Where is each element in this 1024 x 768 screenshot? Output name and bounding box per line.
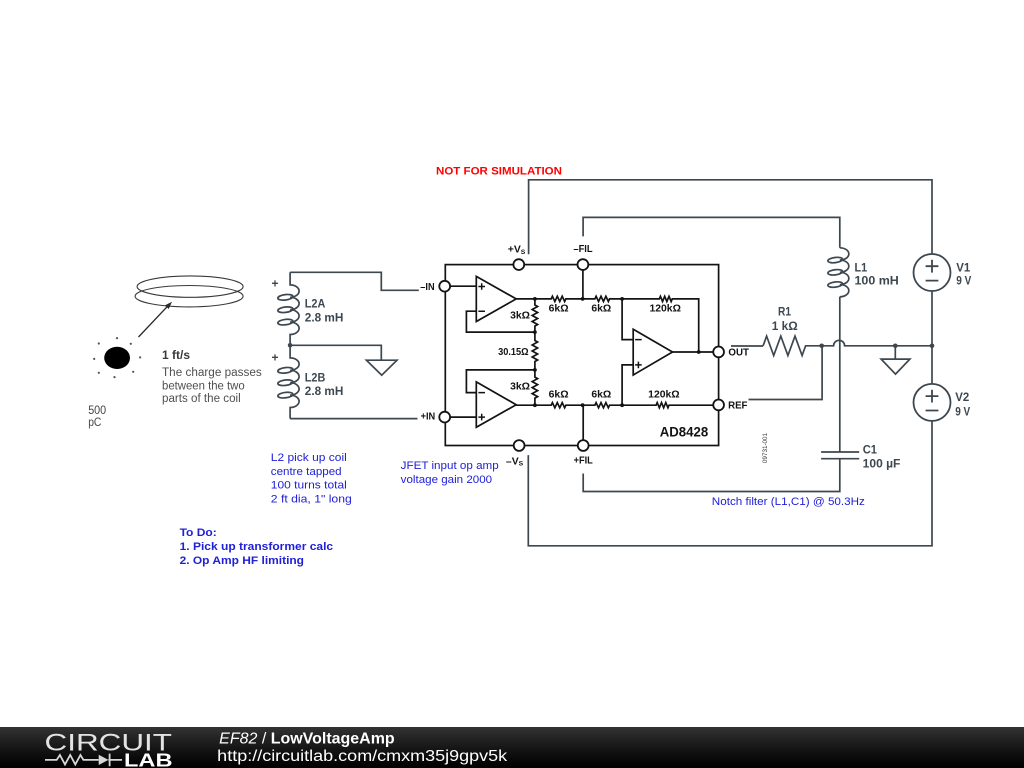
svg-text:120kΩ: 120kΩ [648,390,679,401]
node ground junction [893,344,898,349]
svg-text:REF: REF [728,400,747,411]
svg-text:C1: C1 [863,442,878,456]
wire +FIL stub [582,405,584,440]
svg-text:OUT: OUT [728,347,749,358]
wire A1 output row with resistors [516,296,699,352]
junction dots inside box [533,297,701,407]
logo resistor-diode glyph [45,754,122,767]
terminal -IN [439,281,450,292]
svg-text:–IN: –IN [420,282,434,293]
wire -FIL stub [582,270,584,299]
charge ball [104,347,130,369]
svg-text:centre tapped: centre tapped [271,466,342,478]
svg-text:6kΩ: 6kΩ [591,390,611,401]
svg-text:3kΩ: 3kΩ [510,381,530,392]
svg-text:6kΩ: 6kΩ [549,303,569,314]
resistor 3k (bottom) vertical [532,370,537,405]
svg-text:100 µF: 100 µF [863,456,901,470]
capacitor C1 [821,452,859,459]
wire A1 feedback [466,311,535,332]
terminal REF [713,400,724,411]
terminal +Vs [513,259,524,270]
svg-text:JFET input op amp: JFET input op amp [401,460,499,472]
svg-text:LAB: LAB [124,750,173,768]
svg-text:2.8 mH: 2.8 mH [305,310,344,324]
svg-text:2 ft dia, 1" long: 2 ft dia, 1" long [271,493,352,505]
svg-text:1. Pick up transformer calc: 1. Pick up transformer calc [180,541,334,553]
svg-text:9 V: 9 V [955,404,970,418]
svg-text:Notch filter (L1,C1) @ 50.3Hz: Notch filter (L1,C1) @ 50.3Hz [712,496,865,508]
svg-text:1 ft/s: 1 ft/s [162,348,190,362]
svg-text:L2B: L2B [305,370,326,384]
svg-text:+IN: +IN [421,411,436,422]
svg-text:09731-001: 09731-001 [762,432,769,463]
wire center tap to ground [290,345,381,360]
inductor L1 [828,248,849,297]
svg-text:120kΩ: 120kΩ [649,303,680,314]
resistor 30.15 vertical [532,332,537,370]
svg-text:AD8428: AD8428 [660,424,709,439]
terminal -FIL [578,259,589,270]
inductor L2A [278,272,300,345]
op-amp U1 AD8428 outline box [445,265,718,446]
resistor 3k (top) vertical [532,299,537,332]
svg-text:V1: V1 [956,261,970,275]
svg-text:L1: L1 [855,261,868,275]
voltage source V2 [914,346,951,421]
terminal OUT [713,347,724,358]
wire L2A top to -IN [290,272,419,290]
wire to A3 inverting input [622,299,633,340]
coil drawing ellipse bottom [135,286,243,307]
sparkle dots around charge [93,337,141,378]
svg-text:6kΩ: 6kΩ [549,390,569,401]
svg-text:–FIL: –FIL [573,244,593,255]
wire V1 to output node [931,291,933,346]
wire -FIL rail to L1 [583,217,840,247]
ground (output) [881,359,910,374]
svg-text:pC: pC [88,416,101,429]
svg-text:V2: V2 [955,390,969,404]
svg-text:30.15Ω: 30.15Ω [498,347,529,358]
svg-text:2.8 mH: 2.8 mH [305,384,344,398]
op-amp A1 (top left) [476,276,516,321]
wire -IN to A1 + [450,285,476,287]
svg-text:100 turns total: 100 turns total [271,480,347,492]
terminal +IN [439,412,450,423]
blue note: L2 pick up coil [271,452,352,505]
svg-text:9 V: 9 V [956,274,971,288]
svg-text:3kΩ: 3kΩ [510,311,530,322]
wire L1 to C1 [839,297,841,452]
wire to A3 non-inverting input [622,365,633,405]
svg-text:L2A: L2A [305,297,326,311]
arrow from charge to coil [139,302,173,337]
blue note: To Do list [180,527,334,567]
wire C1 to +FIL [583,459,840,492]
svg-text:100 mH: 100 mH [855,274,899,288]
terminal +FIL [578,440,589,451]
svg-text:The charge passes: The charge passes [162,367,262,379]
wire A2 output row with resistors [516,403,713,408]
wire OUT rail with R1 and hop [731,336,932,355]
wire ground stub [894,346,896,359]
op-amp A3 (output) [633,329,672,375]
svg-text:2. Op Amp HF limiting: 2. Op Amp HF limiting [180,555,304,567]
svg-text:voltage gain 2000: voltage gain 2000 [401,474,492,486]
svg-text:+: + [272,277,279,291]
svg-text:between the two: between the two [162,380,245,392]
svg-text:http://circuitlab.com/cmxm35j9: http://circuitlab.com/cmxm35j9gpv5k [217,748,507,765]
blue note: JFET input op amp [401,460,499,486]
svg-text:NOT FOR SIMULATION: NOT FOR SIMULATION [436,166,562,178]
svg-text:R1: R1 [778,305,791,319]
svg-text:To Do:: To Do: [180,527,217,539]
svg-text:EF82 / LowVoltageAmp: EF82 / LowVoltageAmp [219,731,395,748]
wire +Vs rail to V1 [529,180,932,255]
node V1 V2 junction [930,344,935,349]
wire +IN to A2 + [450,416,476,418]
wire A3 output to OUT [673,351,714,353]
label 500 pC [88,404,106,429]
logo diode triangle [99,755,109,765]
svg-text:+FIL: +FIL [574,456,594,467]
terminal -Vs [514,440,525,451]
node R1 junction [819,344,824,349]
node center tap junction [288,343,293,348]
voltage source V1 [914,254,951,291]
wire A2 feedback [466,370,535,393]
inductor L2B [278,345,300,418]
svg-text:parts of the coil: parts of the coil [162,393,241,405]
wire L2B bottom to +IN [290,418,417,420]
svg-text:6kΩ: 6kΩ [591,303,611,314]
svg-text:+: + [272,351,279,365]
annotation: charge passes [162,367,262,405]
svg-text:1 kΩ: 1 kΩ [772,319,798,333]
coil drawing ellipse top [137,276,243,297]
wire REF to R1 node [749,346,823,400]
op-amp A2 (bottom left) [476,382,516,427]
svg-text:L2 pick up coil: L2 pick up coil [271,452,347,464]
ground (L2 center tap) [366,360,397,375]
footer bar [0,727,1024,768]
wire V2 bottom rail to -Vs [528,421,932,546]
